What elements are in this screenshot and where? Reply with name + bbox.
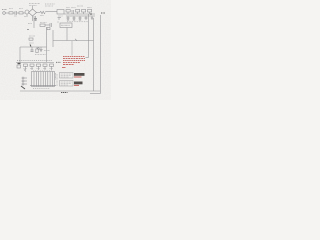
wire bus [16, 62, 54, 64]
wire [47, 11, 57, 13]
capacitor C3 [71, 8, 76, 14]
IC U3 label [33, 88, 50, 90]
diode D2 [40, 47, 42, 52]
transistor Q2 [67, 16, 70, 20]
resistor R3 [40, 11, 47, 15]
box U2 [57, 22, 72, 28]
rotated label column [56, 73, 58, 86]
note line 3 [63, 59, 85, 61]
wire horizontal [20, 46, 47, 48]
note line 4 [63, 61, 80, 63]
net label [28, 23, 32, 25]
capacitor C4b [91, 16, 93, 20]
connector J2 [17, 64, 21, 69]
node B [38, 48, 40, 50]
wire into notes [86, 57, 89, 59]
wire mid vertical [33, 16, 35, 28]
wire vertical left [19, 47, 21, 63]
frame corner line 2 [90, 93, 100, 95]
frame label [61, 92, 68, 94]
resistor R14 [50, 64, 54, 70]
value labels row [67, 21, 88, 23]
capacitor C6 [31, 47, 34, 52]
notes block (red) [62, 56, 85, 67]
note line 1 [63, 55, 85, 57]
node label [45, 4, 55, 6]
stamp A dark [74, 73, 85, 76]
stamp B red [74, 84, 79, 86]
IC U3 body [32, 72, 55, 87]
frame bottom line [20, 90, 100, 92]
wire [64, 13, 95, 15]
label row [17, 59, 52, 61]
wire into notes top [71, 41, 73, 56]
note line 5 [63, 63, 74, 65]
node tick [27, 29, 29, 31]
resistor R13 [43, 64, 47, 70]
label 1 OF [56, 61, 61, 63]
label Pb [101, 12, 105, 14]
resistor R11 [30, 64, 34, 70]
wire vertical [52, 30, 54, 47]
capacitor C1 [14, 11, 19, 16]
resistor R5 [76, 6, 84, 14]
resistor R10 [24, 64, 28, 72]
resistor R2 [19, 9, 25, 15]
wire right bus 2 [93, 18, 95, 91]
connector J3 [21, 77, 27, 89]
node A [90, 13, 92, 15]
resistor R7b [47, 28, 50, 30]
resistor R9 [36, 47, 38, 53]
transistor Q4 [79, 16, 82, 20]
stamp A red [74, 76, 82, 78]
capacitor C4 [85, 16, 88, 20]
stamp B dark [74, 82, 83, 85]
note tick [62, 66, 66, 68]
connector J1 [2, 10, 9, 15]
diode bridge D1 [29, 4, 41, 22]
title block row A [60, 73, 74, 79]
IC U3 bottom rail [30, 84, 56, 86]
value label [35, 54, 46, 56]
resistor R4 [66, 8, 70, 14]
pin numbers [33, 69, 53, 71]
node tick [75, 39, 77, 41]
wire [66, 28, 68, 41]
value label [44, 50, 50, 52]
resistor R8 [29, 36, 35, 47]
wire long horizontal [53, 40, 94, 42]
resistor R12 [37, 64, 41, 70]
resistor R1 [9, 9, 15, 15]
transistor Q3 [73, 16, 76, 20]
capacitor C2 [34, 16, 37, 21]
wire vertical [46, 27, 48, 62]
resistor R7 [40, 23, 50, 27]
note line 2 [63, 57, 85, 59]
resistor R6 [82, 10, 86, 15]
transistor Q1 [24, 10, 29, 17]
capacitor C5 [50, 23, 52, 27]
paper background [0, 0, 111, 100]
wire [66, 15, 95, 17]
op-amp U1 [57, 10, 64, 21]
wire right bus 1 [88, 14, 90, 58]
wire right bus 3 [99, 15, 101, 94]
title block row B [60, 81, 74, 87]
resistor R6b [87, 8, 92, 14]
IC U3 pin columns [34, 72, 52, 87]
